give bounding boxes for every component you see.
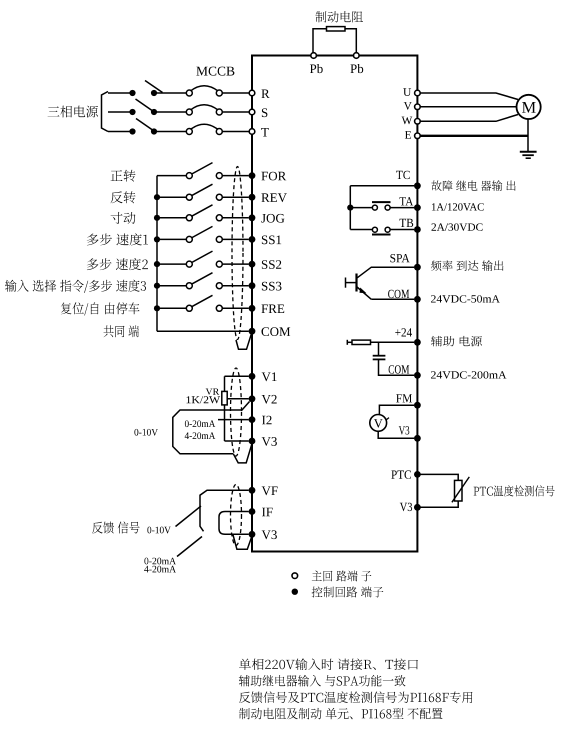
switch FRE right pole — [216, 305, 222, 311]
wire U to motor — [420, 93, 518, 100]
switch blade SS1 — [192, 226, 213, 238]
label terminal FRE — [261, 305, 284, 314]
terminal W — [415, 119, 421, 125]
bus junction REV — [154, 194, 160, 200]
label input 多步 速度1 — [87, 233, 148, 245]
label terminal +24 — [395, 328, 412, 336]
switch blade T — [136, 119, 154, 132]
MCCB pole R left — [186, 90, 192, 96]
switch blade FOR — [192, 163, 213, 175]
input common bus — [156, 176, 158, 332]
label Pb left — [310, 64, 323, 73]
shield ellipse feedback — [231, 485, 242, 546]
wire switch to terminal SS3 — [222, 285, 248, 287]
TA contact bar — [372, 201, 391, 203]
wire motor to ground — [527, 119, 529, 152]
legend main circuit 主回 路端 子 — [312, 571, 372, 582]
label input 共同 端 — [104, 325, 140, 337]
switch FRE left pole — [186, 305, 192, 311]
switch SS2 right pole — [216, 261, 222, 267]
bus junction SS2 — [154, 261, 160, 267]
label terminal SS3 — [262, 282, 282, 291]
note line 2 — [239, 675, 406, 687]
terminal TA — [414, 204, 421, 211]
bracket 0-10V input — [173, 402, 250, 454]
thermistor RT — [452, 477, 469, 502]
wire 0-20mA feedback lead — [177, 537, 202, 557]
wire SPA emitter to COM — [371, 298, 414, 300]
wire T to MCCB — [154, 131, 186, 133]
wire R to MCCB — [154, 92, 186, 94]
wire aux resistor to +24 — [371, 341, 415, 343]
shield funnel V3 fb — [233, 535, 252, 550]
junction T a — [129, 128, 135, 134]
loop IF to V3 — [219, 512, 249, 535]
shield ellipse analog inputs — [231, 368, 242, 456]
label 4-20mA feedback — [144, 566, 176, 573]
wire bus to switch SS2 — [157, 263, 186, 265]
wire bus to switch REV — [157, 196, 186, 198]
label terminal V3 fb — [262, 530, 277, 539]
label input 多步 速度2 — [87, 258, 148, 270]
bus junction TA — [347, 205, 353, 211]
switch REV left pole — [186, 194, 192, 200]
label terminal U — [403, 88, 411, 96]
wire 0-10V feedback lead — [176, 506, 202, 527]
capacitor C1 — [373, 356, 386, 360]
wire V3 row — [225, 440, 249, 442]
wire V to motor — [420, 106, 516, 108]
ground symbol — [520, 152, 537, 158]
terminal V1 — [249, 373, 256, 380]
terminal REV — [249, 194, 256, 201]
terminal COM spa — [414, 296, 421, 303]
terminal SS3 — [249, 282, 256, 289]
note line 3 — [239, 691, 473, 703]
terminal I2 — [249, 416, 256, 423]
note line 4 — [239, 708, 443, 720]
wire FM to meter — [379, 405, 414, 414]
label terminal PTC — [391, 470, 411, 478]
wire source T — [108, 131, 133, 133]
label terminal V3 fm — [399, 426, 410, 435]
terminal V3 fb — [249, 531, 256, 538]
label 2A/30VDC — [432, 223, 483, 231]
wire S to MCCB — [154, 111, 186, 113]
terminal Pb left — [311, 53, 317, 59]
wire VR top lead — [224, 376, 226, 391]
junction R a — [129, 90, 135, 96]
TA contact right — [385, 205, 390, 210]
wire switch to terminal FRE — [222, 307, 248, 309]
wire PTC to thermistor — [420, 474, 458, 480]
note line 1 — [239, 658, 418, 670]
label terminal T — [261, 128, 269, 137]
label terminal SS1 — [262, 236, 281, 245]
MCCB pole T left — [186, 129, 192, 135]
relay bus — [349, 186, 351, 230]
terminal V2 — [249, 395, 256, 402]
switch blade FRE — [192, 295, 213, 307]
terminal Pb right — [354, 53, 360, 59]
terminal SS1 — [249, 236, 256, 243]
label MCCB — [196, 67, 234, 76]
label terminal IF fb — [262, 508, 273, 517]
wire aux resistor left — [347, 341, 352, 343]
switch blade JOG — [192, 205, 213, 217]
terminal U — [415, 90, 421, 96]
wire TC row — [350, 185, 414, 187]
label 1K/2W — [187, 396, 221, 403]
label frequency output 频率 到达 输出 — [431, 260, 504, 271]
junction T b — [151, 128, 157, 134]
label terminal TC — [396, 171, 410, 179]
TB contact left — [372, 227, 377, 232]
wire source R — [108, 92, 133, 94]
MCCB pole T right — [216, 129, 222, 135]
label PTC signal PTC温度检测信号 — [474, 485, 555, 496]
wire bus to switch SS1 — [157, 238, 186, 240]
label terminal REV — [261, 193, 287, 202]
legend control circuit symbol — [292, 589, 298, 595]
switch FOR right pole — [216, 173, 222, 179]
TB contact right — [385, 227, 390, 232]
switch blade SS2 — [192, 251, 213, 263]
wire aux left tick — [346, 340, 348, 345]
label terminal COM spa — [388, 290, 409, 298]
wire I2 stub — [218, 419, 249, 421]
label terminal TA — [400, 197, 414, 205]
label terminal TB — [400, 219, 414, 227]
voltmeter V — [370, 415, 389, 432]
label braking resistor 制动电阻 — [315, 11, 363, 23]
label terminal SPA — [390, 254, 409, 262]
label terminal W — [402, 117, 413, 125]
label terminal R — [261, 90, 269, 99]
braking resistor — [327, 27, 346, 31]
wire MCCB to terminal R — [222, 92, 249, 94]
wire source S — [108, 111, 133, 113]
TA contact left — [372, 205, 377, 210]
bus junction SS3 — [154, 283, 160, 289]
bus junction JOG — [154, 215, 160, 221]
switch blade S — [136, 99, 154, 112]
MCCB pole S left — [186, 109, 192, 115]
three-phase bracket — [102, 92, 109, 132]
switch JOG right pole — [216, 215, 222, 221]
wire E ground — [420, 135, 528, 137]
wire bus to switch SS3 — [157, 285, 186, 287]
wire bus to switch FOR — [157, 175, 186, 177]
label input 正转 — [111, 170, 136, 182]
label VR — [206, 389, 220, 395]
MCCB pole R right — [216, 90, 222, 96]
label input 反转 — [111, 191, 136, 203]
terminal FRE — [249, 305, 256, 312]
label 24VDC-50mA — [431, 295, 500, 303]
junction S b — [151, 109, 157, 115]
label terminal FM — [396, 394, 412, 402]
wire meter to V3 — [378, 431, 414, 438]
wire braking resistor left — [313, 29, 327, 53]
wire VR bottom lead — [224, 405, 226, 441]
label feedback signal 反馈 信号 — [92, 522, 140, 534]
switch JOG left pole — [186, 215, 192, 221]
terminal JOG — [249, 214, 256, 221]
terminal FM — [414, 402, 421, 409]
switch blade SS3 — [192, 273, 213, 285]
wire switch to terminal REV — [222, 196, 248, 198]
switch SS2 left pole — [186, 261, 192, 267]
wire MCCB to terminal T — [222, 131, 249, 133]
label fault relay output 故障 继电 器输 出 — [431, 180, 515, 191]
switch REV right pole — [216, 194, 222, 200]
wire switch to terminal SS1 — [222, 238, 248, 240]
label 0-10V feedback — [147, 527, 170, 534]
terminal COM aux — [414, 372, 421, 379]
wire bus to TA contact — [350, 207, 372, 209]
label terminal V — [404, 102, 412, 110]
terminal V3 fm — [414, 435, 421, 442]
wire VF bracket — [200, 490, 249, 531]
terminal TB — [414, 226, 421, 233]
terminal VF fb — [249, 487, 256, 494]
label terminal E — [405, 131, 411, 139]
switch blade REV — [192, 184, 213, 196]
terminal IF fb — [249, 508, 256, 515]
wire W to motor — [420, 115, 518, 122]
wire bus to TB contact — [350, 229, 372, 231]
wire bus to switch FRE — [157, 307, 186, 309]
label 0-10V analog — [134, 429, 158, 436]
label 1A/120VAC — [432, 203, 484, 211]
bus junction FRE — [154, 305, 160, 311]
switch SS3 left pole — [186, 283, 192, 289]
terminal +24 — [414, 339, 421, 346]
switch SS3 right pole — [216, 283, 222, 289]
terminal TC — [414, 182, 421, 189]
label Pb right — [350, 64, 363, 73]
wire TA contact to terminal — [390, 207, 414, 209]
label terminal V3 — [262, 437, 277, 446]
wire V2 wiper — [227, 398, 249, 400]
terminal S — [249, 109, 255, 115]
wire TB contact to terminal — [390, 229, 414, 231]
label input 复位/自 由停车 — [61, 302, 140, 315]
label terminal I2 — [262, 416, 272, 425]
motor M — [517, 95, 541, 119]
label terminal FOR — [261, 172, 286, 181]
label 0-20mA feedback — [144, 558, 176, 565]
label terminal VF fb — [262, 487, 278, 496]
wire V1 — [225, 375, 249, 377]
wire thermistor to V3 — [420, 501, 458, 507]
junction R b — [151, 90, 157, 96]
label 24VDC-200mA — [431, 371, 507, 379]
wire capacitor bottom lead — [379, 359, 415, 375]
MCCB arc R — [191, 86, 219, 91]
wire braking resistor right — [345, 29, 356, 53]
terminal R — [249, 90, 255, 96]
switch FOR left pole — [186, 173, 192, 179]
wire bus to switch JOG — [157, 217, 186, 219]
switch SS1 right pole — [216, 236, 222, 242]
terminal COM — [249, 328, 256, 335]
switch blade R — [145, 81, 163, 93]
label terminal S — [262, 108, 268, 117]
bus junction SS1 — [154, 236, 160, 242]
terminal SS2 — [249, 261, 256, 268]
wire capacitor top lead — [378, 342, 380, 355]
label input 寸动 — [111, 212, 136, 224]
label aux supply 辅助 电源 — [431, 336, 482, 347]
TB contact bar — [372, 234, 391, 236]
terminal T — [249, 129, 255, 135]
terminal V — [415, 104, 421, 110]
wire switch to terminal JOG — [222, 217, 248, 219]
shield funnel COM — [236, 334, 252, 350]
switch SS1 left pole — [186, 236, 192, 242]
shield ellipse digital inputs — [232, 167, 243, 340]
wire MCCB to terminal S — [222, 111, 249, 113]
wire SPA collector — [357, 267, 414, 278]
label three-phase source 三相电源 — [48, 106, 98, 118]
terminal FOR — [249, 172, 256, 179]
label terminal V2 — [262, 395, 277, 404]
MCCB pole S right — [216, 109, 222, 115]
label terminal COM aux — [389, 365, 410, 373]
MCCB arc S — [191, 105, 219, 110]
terminal V3 ptc — [414, 504, 421, 511]
label terminal COM — [262, 327, 291, 336]
wire switch to terminal SS2 — [222, 263, 248, 265]
transistor Q1 — [346, 274, 372, 300]
terminal PTC — [414, 471, 421, 478]
label 4-20mA analog — [185, 432, 216, 439]
resistor aux — [352, 340, 371, 344]
potentiometer VR — [222, 391, 227, 405]
label terminal JOG — [261, 214, 284, 223]
inverter block outline — [252, 56, 417, 552]
terminal E — [415, 133, 421, 139]
MCCB arc T — [191, 124, 219, 129]
label terminal V1 — [262, 372, 277, 381]
label terminal SS2 — [262, 260, 281, 269]
legend main circuit symbol — [292, 573, 298, 579]
wire COM row — [157, 330, 249, 332]
label 0-20mA analog — [185, 420, 215, 427]
label input 输入 选择 指令/多步 速度3 — [5, 280, 146, 293]
terminal SPA — [414, 264, 421, 271]
legend control circuit 控制回路 端子 — [312, 587, 384, 598]
label terminal V3 ptc — [400, 503, 412, 512]
shield funnel V3 — [233, 444, 252, 463]
junction S a — [129, 109, 135, 115]
terminal V3 — [249, 438, 256, 445]
wire switch to terminal FOR — [222, 175, 248, 177]
